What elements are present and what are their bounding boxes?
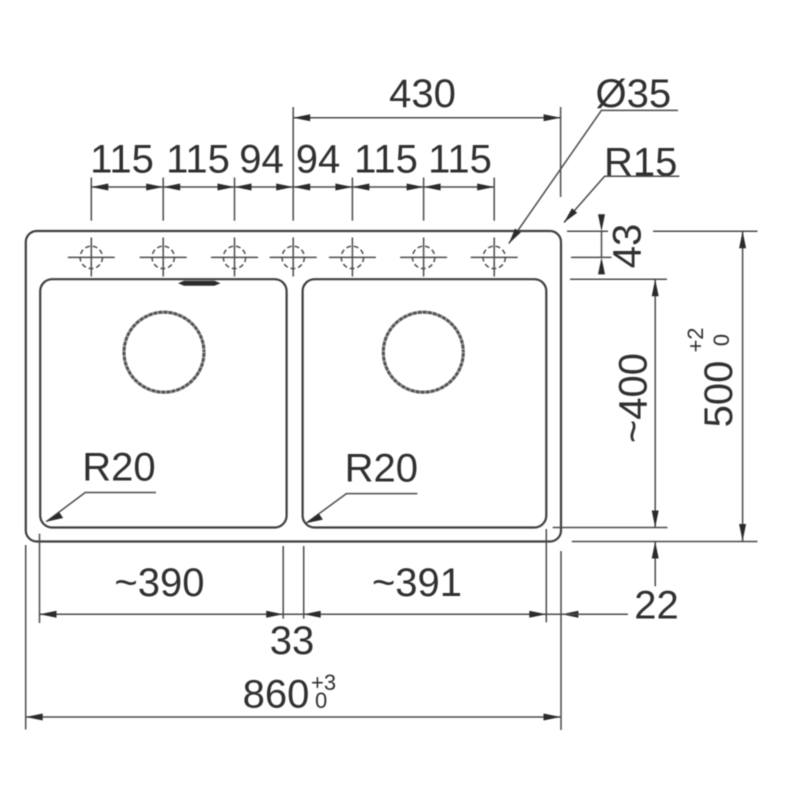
- svg-text:~390: ~390: [114, 561, 204, 605]
- tap hole 6: [400, 238, 447, 277]
- hole spacing chain dimension: [90, 107, 494, 221]
- svg-text:860: 860: [243, 673, 310, 717]
- svg-text:430: 430: [389, 72, 456, 116]
- dimension 22 (bowl edge offsets): [561, 542, 678, 628]
- dimension 860 +3/0: [26, 670, 561, 721]
- dimension 430: [293, 72, 560, 197]
- svg-text:33: 33: [270, 619, 315, 663]
- svg-text:115: 115: [90, 138, 154, 182]
- dimension ~400: [553, 279, 668, 527]
- svg-text:94: 94: [296, 138, 341, 182]
- svg-text:Ø35: Ø35: [596, 72, 672, 116]
- label R20 right bowl: [306, 447, 418, 524]
- sink outer outline: [26, 231, 561, 542]
- overflow slot: [178, 281, 221, 286]
- svg-text:94: 94: [239, 138, 284, 182]
- tap hole 1: [68, 238, 115, 277]
- label R15 with leader to top-right corner: [564, 141, 679, 223]
- svg-text:~400: ~400: [611, 353, 655, 443]
- bottom dimension line: ~390 / 33 / ~391: [26, 529, 628, 730]
- label R20 left bowl: [46, 446, 156, 522]
- tap hole 7: [471, 238, 518, 277]
- svg-text:+2: +2: [683, 327, 708, 352]
- left bowl: [40, 279, 286, 527]
- svg-text:0: 0: [315, 688, 327, 713]
- tap hole 5: [329, 238, 376, 277]
- dimension 43: [567, 214, 758, 274]
- svg-text:115: 115: [428, 138, 492, 182]
- svg-text:43: 43: [606, 224, 650, 269]
- svg-text:115: 115: [354, 138, 418, 182]
- tap hole 3: [211, 238, 258, 277]
- right drain circle: [383, 312, 463, 392]
- left drain circle: [124, 312, 204, 392]
- tap hole 4: [270, 238, 317, 277]
- dimension 500 +2/0: [572, 231, 758, 541]
- tap hole 2: [140, 238, 187, 277]
- svg-text:R15: R15: [604, 141, 677, 185]
- svg-text:~391: ~391: [372, 561, 462, 605]
- right bowl: [303, 279, 547, 527]
- svg-text:22: 22: [634, 584, 679, 628]
- svg-text:0: 0: [709, 334, 734, 346]
- svg-text:R20: R20: [82, 446, 155, 490]
- label D35 with leader to hole 7: [509, 72, 678, 244]
- svg-text:115: 115: [166, 138, 230, 182]
- svg-text:500: 500: [697, 361, 741, 428]
- svg-text:R20: R20: [345, 447, 418, 491]
